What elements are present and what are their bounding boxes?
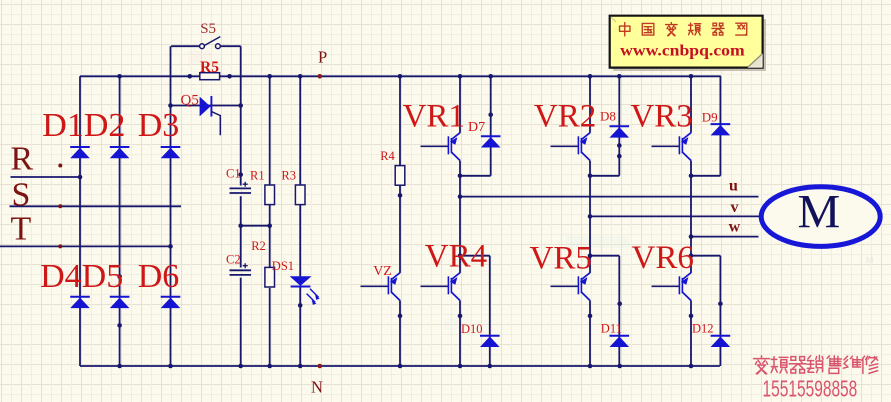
diode D6	[161, 297, 181, 308]
phase input terminal dots	[58, 164, 62, 168]
junction dots on N rail	[117, 364, 122, 369]
svg-text:M: M	[798, 186, 841, 239]
diode D7	[481, 136, 501, 147]
sticky note	[610, 16, 766, 71]
svg-text:D3: D3	[138, 107, 180, 144]
wire phase leg 2 column	[589, 76, 591, 133]
capacitor C2	[230, 263, 252, 275]
transistor VR1	[421, 133, 461, 161]
wire soft-start right leg / filter column	[240, 46, 242, 185]
svg-text:DS1: DS1	[272, 259, 294, 273]
svg-text:S5: S5	[200, 21, 216, 37]
svg-text:R: R	[11, 140, 34, 177]
transistor VR5	[551, 273, 591, 301]
thyristor Q5	[200, 96, 221, 135]
wire T phase input	[0, 245, 171, 247]
sticky note text line 1 (中国变频器网)	[620, 23, 747, 36]
LED DS1	[290, 276, 320, 305]
watermark text 变频器销售维修	[754, 355, 878, 373]
node P marker dot	[318, 74, 323, 79]
svg-text:P: P	[318, 47, 327, 66]
diode D8	[610, 126, 630, 137]
resistor R3	[295, 185, 305, 205]
svg-text:R5: R5	[200, 59, 219, 76]
diode D9	[711, 124, 731, 135]
svg-text:C1: C1	[226, 167, 241, 181]
wire w output	[691, 236, 759, 238]
svg-text:M: M	[866, 255, 874, 265]
svg-text:v: v	[731, 199, 739, 216]
wire N rail	[80, 365, 720, 367]
svg-text:u: u	[729, 178, 738, 195]
misc junction dots	[78, 175, 83, 180]
svg-text:15515598858: 15515598858	[763, 376, 858, 402]
emitter / branch junction dots	[458, 174, 463, 179]
transistor VR4	[421, 273, 461, 301]
wire switch top link	[171, 45, 200, 47]
wire Q5 branch	[171, 105, 241, 107]
node N marker dot	[318, 364, 323, 369]
svg-text:▒▒: ▒▒	[444, 318, 459, 330]
diode D10	[480, 336, 500, 347]
svg-text:D12: D12	[692, 322, 714, 336]
transistor VR2	[551, 133, 591, 161]
svg-text:VR4: VR4	[425, 238, 487, 274]
svg-text:R3: R3	[281, 169, 296, 183]
svg-text:D9: D9	[702, 110, 718, 125]
wire v output	[590, 215, 759, 217]
svg-text:C2: C2	[226, 252, 241, 266]
svg-text:D4D5: D4D5	[40, 258, 123, 295]
transistor VR3	[652, 133, 692, 161]
svg-text:D7: D7	[468, 120, 485, 135]
svg-text:w: w	[729, 219, 741, 236]
diode D5	[110, 297, 130, 308]
wire D11 branch	[590, 255, 619, 257]
wire D12 branch	[691, 255, 720, 257]
svg-text:D11: D11	[601, 322, 622, 336]
svg-text:N: N	[311, 377, 323, 396]
wire R1/R2 column	[269, 76, 271, 185]
svg-text:VR3: VR3	[630, 98, 692, 134]
motor M	[761, 187, 880, 247]
wire bridge column D1/D4	[79, 76, 81, 366]
svg-text:R1: R1	[250, 169, 265, 183]
capacitor C1	[230, 182, 252, 193]
diode D3	[161, 147, 181, 158]
wire D8 branch	[618, 76, 620, 176]
wire D10 branch	[460, 255, 490, 257]
svg-text:VZ: VZ	[373, 264, 392, 279]
svg-text:www.cnbpq.com: www.cnbpq.com	[620, 42, 745, 59]
svg-text:R4: R4	[380, 149, 395, 163]
diode D12	[711, 336, 731, 347]
wire phase leg 1 column	[459, 76, 461, 133]
svg-text:Q5: Q5	[181, 92, 199, 108]
resistor R4	[395, 166, 405, 186]
diode D2	[110, 147, 130, 158]
diode D1	[70, 147, 90, 158]
wire R3/DS1 column	[299, 76, 301, 185]
wire u output	[460, 196, 759, 198]
wire S phase input	[10, 205, 182, 207]
wire bridge column D2/D5	[119, 76, 121, 366]
wire R4 column	[399, 76, 401, 165]
svg-text:R2: R2	[251, 239, 266, 253]
switch S5	[200, 37, 221, 49]
transistor VR6	[652, 273, 692, 301]
wire R phase input	[11, 176, 81, 178]
svg-text:T: T	[11, 210, 32, 247]
svg-text:S: S	[12, 177, 31, 214]
svg-text:VR1: VR1	[403, 98, 465, 134]
wire C1-R1 link	[241, 225, 270, 227]
svg-text:VR2: VR2	[534, 98, 596, 134]
resistor R2	[265, 267, 275, 287]
svg-text:D6: D6	[138, 258, 180, 295]
svg-text:D10: D10	[461, 322, 483, 336]
diode D11	[610, 336, 630, 347]
svg-text:VR6: VR6	[632, 240, 694, 276]
junction dots on P bus	[117, 74, 122, 79]
transistor VZ	[361, 273, 401, 301]
resistor R1	[265, 185, 275, 205]
resistor R5	[200, 73, 220, 80]
wire D7 branch	[490, 76, 492, 176]
wire P bus	[80, 75, 721, 77]
svg-text:D1D2: D1D2	[42, 107, 125, 144]
wire phase leg 3 column	[690, 76, 692, 133]
wire bridge column D3/D6 + soft-start left leg	[170, 46, 172, 366]
diode D4	[70, 297, 90, 308]
svg-text:D8: D8	[600, 108, 616, 123]
wire D9 branch	[719, 76, 721, 176]
svg-text:VR5: VR5	[530, 241, 592, 277]
